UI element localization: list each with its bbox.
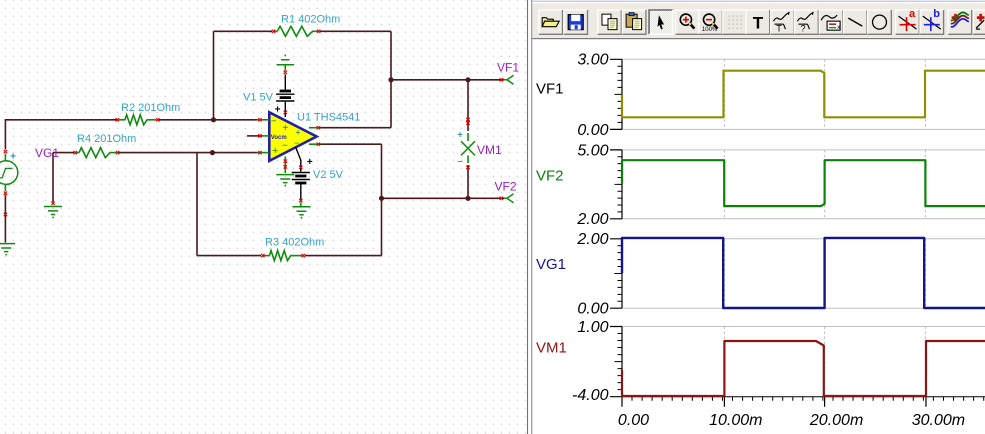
svg-text:VF1: VF1 xyxy=(536,81,564,98)
svg-text:+: + xyxy=(10,152,16,163)
waveform window frame xyxy=(527,0,528,434)
x axis ticks xyxy=(622,397,984,401)
wire OUT- run xyxy=(321,143,382,145)
svg-text:-4.00: -4.00 xyxy=(572,387,609,404)
wire VG1 top vertical xyxy=(4,119,6,150)
svg-text:−: − xyxy=(271,116,277,127)
op-amp U1 THS4541 xyxy=(269,112,316,161)
svg-text:0.00: 0.00 xyxy=(577,122,608,139)
wire R1 top run xyxy=(214,30,392,32)
resistor R4 201Ohm xyxy=(76,152,79,154)
svg-text:b: b xyxy=(933,8,940,20)
wire R3 bottom run xyxy=(197,255,382,257)
svg-text:−: − xyxy=(294,138,299,148)
wire R1 loop right vertical to VF1 node xyxy=(390,31,392,80)
svg-text:R3 402Ohm: R3 402Ohm xyxy=(265,236,324,248)
op-amp output leads xyxy=(309,127,321,129)
svg-text:R2 201Ohm: R2 201Ohm xyxy=(121,102,180,114)
svg-text:VG1: VG1 xyxy=(35,146,59,160)
wire Vocm stub xyxy=(247,135,262,137)
schematic background xyxy=(0,0,533,434)
svg-text:+: + xyxy=(307,157,313,168)
wire R1 feedback loop left vertical xyxy=(213,31,215,120)
wire R3 loop right vertical xyxy=(381,198,383,255)
svg-text:VF2: VF2 xyxy=(495,179,517,193)
wire VG1 bottom vertical xyxy=(4,195,6,243)
toolbar button waves xyxy=(948,10,972,34)
toolbar button cursA xyxy=(896,10,920,34)
svg-text:a: a xyxy=(909,8,916,20)
terminal VF2 xyxy=(500,197,503,200)
wire node VF1 down to OUT+ xyxy=(390,80,392,128)
resistor R3 402Ohm xyxy=(264,255,270,257)
terminal VF1 xyxy=(500,78,503,81)
wire VM1 branch upper xyxy=(467,80,469,131)
svg-text:+: + xyxy=(272,145,278,157)
svg-text:2.00: 2.00 xyxy=(576,231,608,248)
junction node IN- (R1/R2) xyxy=(211,117,216,122)
toolbar button zoomin xyxy=(676,10,700,34)
junction node VF1 xyxy=(388,77,393,82)
toolbar button legend xyxy=(819,10,843,34)
toolbar button arrow xyxy=(649,10,673,34)
junction node VF2 xyxy=(379,196,384,201)
junction node IN+ (R4) xyxy=(210,150,215,155)
toolbar button grid xyxy=(723,10,747,34)
resistor R1 402Ohm xyxy=(274,30,278,32)
wire R3 loop left vertical xyxy=(196,153,198,256)
wire OUT+ to vertical xyxy=(321,127,392,129)
svg-text:+: + xyxy=(457,130,463,141)
plot VM1 axis xyxy=(622,326,985,328)
battery V1 5V xyxy=(284,74,286,89)
op-amp bottom pin to ground xyxy=(284,157,286,174)
wire VF2 output run xyxy=(382,197,505,199)
svg-text:+: + xyxy=(275,105,281,116)
plot VF1 axis xyxy=(622,58,985,60)
svg-text:VG1: VG1 xyxy=(536,256,566,273)
wire OUT- vertical down to VF2 node xyxy=(381,144,383,198)
svg-text:VF1: VF1 xyxy=(497,61,519,75)
svg-text:V1 5V: V1 5V xyxy=(243,91,274,103)
svg-text:T: T xyxy=(776,24,782,34)
toolbar button curveT xyxy=(771,10,795,34)
trace VG1 xyxy=(622,238,985,308)
plot VF2 axis xyxy=(622,149,985,151)
ground below VG1 xyxy=(0,244,15,252)
toolbar button paste xyxy=(622,10,646,34)
svg-text:V2 5V: V2 5V xyxy=(313,169,344,181)
svg-text:0.00: 0.00 xyxy=(618,412,649,429)
svg-text:R1 402Ohm: R1 402Ohm xyxy=(281,14,340,26)
resistor R2 201Ohm xyxy=(119,119,125,121)
junction VM1 top xyxy=(465,77,470,82)
voltmeter VM1 xyxy=(466,118,469,121)
wire R4 run (gnd node to IN+) xyxy=(53,152,257,154)
svg-text:1.00: 1.00 xyxy=(577,319,608,336)
trace VF1 xyxy=(622,71,985,118)
svg-text:VM1: VM1 xyxy=(477,143,502,157)
toolbar button open xyxy=(539,10,563,34)
svg-text:3.00: 3.00 xyxy=(577,52,608,69)
svg-text:−: − xyxy=(457,157,463,168)
svg-text:T: T xyxy=(753,14,764,33)
toolbar button text xyxy=(746,10,770,34)
ground above V1 (inverted) xyxy=(284,55,286,57)
plot VG1 axis xyxy=(622,238,985,240)
ground at R4 input xyxy=(51,202,54,205)
voltage source VG1 xyxy=(4,150,7,153)
toolbar button save xyxy=(564,10,588,34)
toolbar button waves2 xyxy=(973,10,985,34)
trace VF2 xyxy=(622,160,985,206)
svg-text:30.00m: 30.00m xyxy=(912,412,965,429)
svg-text:100%: 100% xyxy=(702,27,718,33)
svg-text:R4 201Ohm: R4 201Ohm xyxy=(77,133,136,145)
wire R4 ground drop xyxy=(52,153,54,202)
svg-text:2.00: 2.00 xyxy=(576,211,608,228)
wire VF1 output run xyxy=(391,79,504,81)
svg-text:+: + xyxy=(282,123,288,134)
svg-text:−: − xyxy=(282,141,288,152)
toolbar button curveQ xyxy=(795,10,819,34)
wire R2 input run (VG1 node to IN-) xyxy=(5,119,257,121)
svg-text:20.00m: 20.00m xyxy=(809,412,863,429)
svg-text:U1 THS4541: U1 THS4541 xyxy=(297,111,360,123)
op-amp input leads xyxy=(257,119,269,121)
svg-text:VF2: VF2 xyxy=(536,168,564,185)
svg-text:5.00: 5.00 xyxy=(577,142,608,159)
toolbar button zoomout xyxy=(699,10,723,34)
junction VM1 bottom xyxy=(465,196,470,201)
svg-text:0.00: 0.00 xyxy=(577,301,608,318)
svg-text:?: ? xyxy=(800,24,805,34)
battery V2 5V xyxy=(296,147,301,171)
toolbar button line xyxy=(844,10,868,34)
svg-text:VM1: VM1 xyxy=(536,340,567,357)
toolbar button cursB xyxy=(920,10,944,34)
ground below V2 xyxy=(299,199,302,202)
svg-text:10.00m: 10.00m xyxy=(709,412,762,429)
svg-text:+: + xyxy=(295,128,300,138)
trace VM1 xyxy=(622,341,985,396)
toolbar xyxy=(532,0,985,3)
toolbar button ellipse xyxy=(868,10,892,34)
toolbar button copy xyxy=(598,10,622,34)
wire VM1 branch lower xyxy=(467,165,469,198)
